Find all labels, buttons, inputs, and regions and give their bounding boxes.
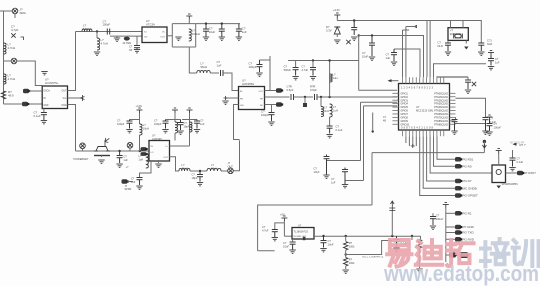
resistor R3 xyxy=(344,258,348,267)
watermark char yi xyxy=(387,240,411,267)
svg-text:U?: U? xyxy=(152,134,156,138)
oscillator U2 TCXO xyxy=(142,27,167,43)
svg-text:OSCin: OSCin xyxy=(43,91,50,93)
junction cross U3 stub xyxy=(224,96,228,100)
arrow gnd Y1 xyxy=(464,44,468,50)
transistor Q1 detector xyxy=(94,147,110,156)
junction xyxy=(328,96,330,98)
capacitor C8 xyxy=(269,113,275,122)
capacitor C6 series xyxy=(221,70,224,76)
wire bias1 down xyxy=(139,113,141,124)
wire U6 out lpf xyxy=(170,157,180,171)
wire left rail to U1 RFin xyxy=(4,103,43,105)
ground C34 xyxy=(194,130,200,133)
connector PG TXD xyxy=(455,230,462,235)
wire U3 pin2 stub xyxy=(226,97,239,99)
wire feedback tap xyxy=(346,241,393,255)
svg-text:100pF: 100pF xyxy=(249,65,257,69)
connector J4 xyxy=(127,143,133,149)
wire L4 stub xyxy=(96,32,98,39)
connector J2 xyxy=(11,58,17,64)
svg-text:R?: R? xyxy=(349,241,353,245)
svg-text:R? GND: R? GND xyxy=(463,225,475,229)
svg-text:C?: C? xyxy=(517,157,521,161)
svg-text:18pF: 18pF xyxy=(192,176,198,180)
svg-text:MC13213 SML: MC13213 SML xyxy=(416,108,434,112)
svg-text:C?: C? xyxy=(362,51,366,55)
ground C5 xyxy=(236,37,242,40)
svg-text:NF: NF xyxy=(129,49,133,52)
wire pin to C20 xyxy=(455,117,457,119)
net arrow up VCC xyxy=(389,201,395,211)
svg-text:PG GPSET: PG GPSET xyxy=(463,194,479,198)
capacitor C2 xyxy=(41,113,47,121)
inductor L14 xyxy=(179,168,190,171)
wire bus to PG R0 xyxy=(434,136,456,166)
svg-text:RT RXD?: RT RXD? xyxy=(524,171,536,175)
ground C19 xyxy=(486,132,492,135)
connector PG R01 xyxy=(455,157,462,162)
wire U2 out xyxy=(167,35,172,37)
wire divider bot xyxy=(345,266,347,269)
wire pin2 stub xyxy=(403,30,410,77)
svg-text:4.7uF: 4.7uF xyxy=(262,228,269,232)
svg-text:C?: C? xyxy=(336,125,340,129)
U4 bottom pins xyxy=(403,130,444,136)
wire left rail xyxy=(3,11,5,104)
svg-text:4.7uF: 4.7uF xyxy=(302,68,309,72)
svg-text:1uH: 1uH xyxy=(333,108,338,112)
inductor L4 xyxy=(97,38,100,50)
connector SPKR xyxy=(122,179,129,184)
wire bus to PG D7 xyxy=(427,136,455,181)
svg-text:NLR: NLR xyxy=(487,42,492,46)
svg-text:MC GNDB: MC GNDB xyxy=(463,187,477,191)
inductor L5 xyxy=(189,29,192,41)
capacitor C27 xyxy=(321,236,327,248)
wire L7 drop xyxy=(320,97,322,107)
wire vout rail xyxy=(314,235,421,237)
wire Q1 gnd stub xyxy=(101,156,103,158)
svg-text:OUT: OUT xyxy=(258,91,263,93)
svg-text:C?: C? xyxy=(184,121,188,125)
regulator U5 TL1963A xyxy=(292,228,314,240)
wire J2 to U1 xyxy=(17,61,42,86)
svg-text:NLR: NLR xyxy=(438,44,443,48)
interface J1 box xyxy=(492,165,506,183)
svg-text:100pF: 100pF xyxy=(117,122,125,126)
ground C32 xyxy=(162,130,168,133)
ground C15 xyxy=(445,52,451,55)
svg-text:1uF: 1uF xyxy=(242,30,247,34)
wire loop L5 xyxy=(172,24,195,47)
connector P1 xyxy=(23,89,30,94)
capacitor C25 xyxy=(272,230,278,238)
wire rf line bottom xyxy=(76,150,150,152)
wire gnd stub 2 xyxy=(116,36,118,37)
svg-text:C?1: C?1 xyxy=(487,39,492,43)
connector J5 xyxy=(228,168,234,174)
inductor L8 xyxy=(330,74,333,82)
ground C24 xyxy=(342,185,348,188)
svg-text:100uF: 100uF xyxy=(494,125,502,129)
svg-text:PG R01: PG R01 xyxy=(463,158,474,162)
junction cross bus xyxy=(411,144,415,148)
wire nested1 xyxy=(327,160,361,162)
svg-text:LMX2581: LMX2581 xyxy=(242,82,254,86)
svg-text:1uF: 1uF xyxy=(331,180,336,184)
connector PG R0 xyxy=(455,164,462,169)
ground osc2 xyxy=(114,38,120,41)
ground C2 xyxy=(41,121,47,124)
svg-text:4.7nH: 4.7nH xyxy=(8,46,16,50)
inductor L2 xyxy=(4,74,7,84)
connector PG D7 xyxy=(455,179,462,184)
wire bias dist xyxy=(288,60,359,62)
wire to QFP pin xyxy=(359,89,397,91)
svg-text:L?: L? xyxy=(324,106,327,110)
wire bus2 drop to QFP xyxy=(358,36,360,91)
junction xyxy=(371,34,373,36)
svg-text:0.1uF: 0.1uF xyxy=(34,114,41,118)
capacitor C3 xyxy=(203,24,209,37)
wire stair1 xyxy=(361,102,398,160)
ground divider xyxy=(343,270,349,273)
svg-text:1uH: 1uH xyxy=(139,158,144,161)
wire box3 to C35 xyxy=(140,161,152,178)
power +3.3V I xyxy=(187,108,193,113)
wire U1 to RF line xyxy=(68,105,76,152)
wire branch C31 xyxy=(130,119,140,121)
svg-text:GD: GD xyxy=(144,37,148,39)
wire L6 to C6 xyxy=(210,72,219,74)
wire rail bottom xyxy=(258,250,275,252)
junction node A xyxy=(483,140,486,143)
svg-text:C?: C? xyxy=(495,57,499,61)
svg-text:PG TXD: PG TXD xyxy=(463,231,475,235)
svg-text:C?: C? xyxy=(490,117,494,121)
wire U3 vcc drop xyxy=(260,56,271,91)
transceiver U4 MC13213 QFN xyxy=(399,84,450,131)
svg-text:IN: IN xyxy=(43,98,46,100)
ground C28 xyxy=(393,248,399,251)
wire U6 to bias3 xyxy=(170,145,190,147)
inductor L11 xyxy=(175,122,178,133)
wire J4 stub xyxy=(129,148,131,151)
capacitor C24 xyxy=(342,168,348,185)
capacitor C4 xyxy=(219,24,225,37)
svg-text:0.5pF: 0.5pF xyxy=(287,88,294,92)
svg-text:C?: C? xyxy=(436,214,440,218)
ground C29 xyxy=(430,226,436,229)
wire C6 to U3 xyxy=(223,73,239,91)
svg-text:3.3V: 3.3V xyxy=(326,28,332,32)
svg-text:+5V: +5V xyxy=(280,213,285,217)
svg-text:C?R: C?R xyxy=(287,85,292,89)
pll U3 LMX2581 xyxy=(239,87,265,110)
ground C21 xyxy=(482,131,488,134)
svg-text:10uF: 10uF xyxy=(209,30,216,34)
connector J1 RF input xyxy=(12,8,18,14)
wire C8 drop xyxy=(271,105,273,113)
wire bias rail xyxy=(329,61,331,98)
ground C17 xyxy=(488,67,494,70)
svg-text:R?R: R?R xyxy=(310,85,315,89)
svg-text:TL1963A?33: TL1963A?33 xyxy=(294,230,309,233)
svg-text:0.1uF: 0.1uF xyxy=(336,128,343,132)
connector J3 xyxy=(80,143,86,149)
junction stub xyxy=(372,130,374,132)
svg-text:2.2uF: 2.2uF xyxy=(490,120,497,124)
capacitor C18 xyxy=(465,80,471,89)
ground C8 xyxy=(268,122,274,125)
svg-text:4.7nH: 4.7nH xyxy=(8,77,16,81)
wire lpf mid xyxy=(190,170,207,172)
svg-text:www.edatop.com: www.edatop.com xyxy=(383,261,539,286)
wire U3 out2 xyxy=(265,104,277,106)
wire pwr stub xyxy=(336,18,338,21)
svg-text:1uF: 1uF xyxy=(217,63,222,67)
power +3.3V H xyxy=(172,108,178,113)
ground C20 xyxy=(451,131,457,134)
wire C41 drop xyxy=(136,36,138,45)
capacitor C13 xyxy=(369,36,375,57)
junction xyxy=(118,150,120,152)
svg-text:0.5pF: 0.5pF xyxy=(310,88,317,92)
ferrite bead FB1 xyxy=(22,102,29,107)
svg-text:4.7pF: 4.7pF xyxy=(11,28,19,32)
mixer U6 xyxy=(149,141,170,162)
wire to PG TXD xyxy=(446,232,455,234)
wire +5V to rail xyxy=(283,221,285,236)
button cell Y2 xyxy=(124,37,130,41)
wire stair2 xyxy=(364,106,398,181)
wire pwr to loop xyxy=(188,19,190,24)
power +3.3V E xyxy=(496,149,502,154)
no-fit X2 xyxy=(472,82,476,86)
wire C43 stub xyxy=(312,61,314,68)
wire C9 to C10 xyxy=(294,96,314,98)
ground C43 xyxy=(310,77,316,80)
wire nested2 xyxy=(345,180,364,182)
junction xyxy=(312,59,314,61)
wire bus stub1 xyxy=(412,136,414,146)
wire antenna stub xyxy=(372,113,374,132)
connector P4 xyxy=(449,253,457,258)
wire bus to PG R01 xyxy=(437,136,455,159)
svg-text:10uH: 10uH xyxy=(143,126,149,130)
wire to P4 xyxy=(446,254,449,256)
wire L9 to C11 xyxy=(329,117,331,126)
wire stub xyxy=(411,236,413,240)
capacitor C16 xyxy=(478,42,484,51)
wire U1 gnd stub xyxy=(43,109,45,113)
wire Y1 lead2 xyxy=(462,21,464,28)
svg-text:1234567890123: 1234567890123 xyxy=(401,86,434,90)
watermark char pei xyxy=(481,239,508,266)
net arrow VDD xyxy=(413,25,417,28)
filter U1 LFCN-575 xyxy=(42,86,67,109)
wire osc line xyxy=(76,31,143,33)
junction xyxy=(304,96,306,98)
wire label rail xyxy=(445,208,447,263)
no-fit X1 xyxy=(346,40,350,44)
svg-text:L?: L? xyxy=(333,105,336,109)
svg-text:100pF: 100pF xyxy=(154,122,162,126)
capacitor C14 xyxy=(391,49,397,61)
wire to R? GND xyxy=(446,226,455,228)
power +3.3V A xyxy=(186,14,192,19)
wire bus1 to crystal corner xyxy=(427,21,481,43)
svg-text:10uF: 10uF xyxy=(283,244,289,248)
svg-text:100pF: 100pF xyxy=(103,23,111,27)
wire bias2 down xyxy=(174,113,176,122)
arrow Q1 xyxy=(105,138,110,143)
svg-text:PG R1: PG R1 xyxy=(463,212,472,216)
svg-text:10uF: 10uF xyxy=(328,242,334,246)
capacitor C10 series xyxy=(315,94,318,100)
svg-text:C?: C? xyxy=(200,119,204,123)
wire top-left input xyxy=(0,10,12,12)
ground near U2 xyxy=(175,37,181,40)
capacitor C21 xyxy=(483,118,489,131)
svg-text:4B: 4B xyxy=(383,119,386,122)
wire divider mid xyxy=(345,250,347,258)
ground U3 stub xyxy=(222,101,228,104)
wire +5V branch xyxy=(275,223,285,229)
wire sense up xyxy=(391,211,393,237)
svg-text:C?: C? xyxy=(331,177,335,181)
wire U5 byp xyxy=(292,239,294,242)
wire C22 drop xyxy=(512,150,514,158)
wire bus3 xyxy=(394,49,420,77)
junction xyxy=(391,235,393,237)
connector P2 xyxy=(276,88,283,93)
capacitor C19 xyxy=(487,120,493,131)
wire vcc top rail xyxy=(196,23,240,25)
capacitor C1 (DNP X) xyxy=(11,33,15,37)
connector PG RXD xyxy=(455,237,462,242)
wire bus to J-box xyxy=(430,136,492,173)
wire bus1 xyxy=(337,21,427,78)
wire Y1 left down xyxy=(447,40,449,42)
connector PG R1 xyxy=(455,211,462,216)
svg-text:GD: GD xyxy=(260,105,264,107)
wire R4 top xyxy=(420,236,422,239)
inductor L15 xyxy=(207,168,221,171)
svg-text:10uF: 10uF xyxy=(362,54,368,58)
svg-text:C?: C? xyxy=(284,65,288,69)
wire arrow to U4 xyxy=(392,80,399,82)
svg-text:100k: 100k xyxy=(349,244,355,248)
wire J-box out xyxy=(506,172,518,174)
capacitor C12 xyxy=(351,21,357,36)
svg-text:SPKR: SPKR xyxy=(125,188,132,191)
capacitor C20 xyxy=(452,120,458,131)
svg-text:C?: C? xyxy=(386,53,390,57)
wire bus stub2 xyxy=(408,136,410,146)
svg-text:100uF: 100uF xyxy=(436,217,444,221)
svg-text:OUT: OUT xyxy=(160,37,165,39)
ground C16 xyxy=(478,52,484,55)
svg-text:4.7uH: 4.7uH xyxy=(101,41,108,45)
svg-text:1uF: 1uF xyxy=(386,56,391,60)
svg-text:VTC34: VTC34 xyxy=(146,23,155,27)
ground L4 xyxy=(94,52,100,55)
ground C33 xyxy=(177,131,183,134)
wire to C21 xyxy=(455,123,486,125)
svg-text:1uF: 1uF xyxy=(200,122,205,126)
wire arrow stub to pin1 xyxy=(406,27,417,78)
ground C18 xyxy=(465,90,471,93)
resistor R4 xyxy=(417,240,421,249)
svg-text:GND: GND xyxy=(43,105,48,107)
svg-text:SPGRPGRPRS: SPGRPGRPRS xyxy=(502,184,519,186)
svg-text:VC: VC xyxy=(162,32,165,34)
inductor L13 xyxy=(146,154,149,169)
resistor R1 xyxy=(1,91,5,99)
ground C30 xyxy=(116,164,122,167)
power +3.3V G xyxy=(137,108,143,113)
wire divider top xyxy=(345,236,347,241)
svg-text:OUT: OUT xyxy=(163,157,168,159)
crystal Y1 symbol xyxy=(454,34,463,39)
svg-text:68nH: 68nH xyxy=(211,166,217,170)
wire bus1b to QFP xyxy=(429,21,431,78)
inductor L1 xyxy=(4,43,7,54)
U4 top pins xyxy=(403,77,444,83)
svg-text:1uF: 1uF xyxy=(495,60,500,64)
ground C42 xyxy=(292,77,298,80)
inductor L3 xyxy=(82,29,92,32)
arrow node A xyxy=(482,144,486,148)
svg-text:R?: R? xyxy=(349,258,353,262)
J-box circle xyxy=(496,169,501,174)
ground C31 xyxy=(126,130,132,133)
wire bus2 xyxy=(359,36,424,78)
svg-text:C?: C? xyxy=(262,225,266,229)
connector MC GNDB xyxy=(455,186,462,191)
capacitor C7 xyxy=(257,60,263,72)
junction xyxy=(199,170,201,172)
svg-text:OUT: OUT xyxy=(228,165,234,168)
svg-text:+3.3V: +3.3V xyxy=(136,105,143,108)
svg-text:100uH: 100uH xyxy=(192,32,200,36)
wire R4 down xyxy=(419,248,421,268)
capacitor C40 series xyxy=(107,29,109,35)
connector P7 xyxy=(141,152,148,156)
capacitor C30 xyxy=(117,151,123,163)
diode D1 TVS xyxy=(334,27,340,34)
ground C11 xyxy=(326,135,332,138)
U4 left pin labels xyxy=(401,92,410,126)
svg-text:100pF: 100pF xyxy=(261,113,269,117)
crystal Y1 box xyxy=(448,28,468,41)
connector RT RXD xyxy=(517,171,524,176)
ground C12 xyxy=(351,37,357,40)
power +3.3V F xyxy=(443,203,449,208)
junction xyxy=(345,235,347,237)
capacitor C15 xyxy=(445,43,451,51)
U4 left pins xyxy=(392,93,398,124)
svg-text:POWERDET: POWERDET xyxy=(74,157,89,161)
watermark char tuo xyxy=(447,240,474,266)
svg-text:LFCN575+: LFCN575+ xyxy=(45,81,59,85)
watermark char di xyxy=(416,240,442,265)
wire right vcc xyxy=(456,98,486,117)
svg-text:SMA: SMA xyxy=(20,11,26,15)
junction xyxy=(345,253,347,255)
